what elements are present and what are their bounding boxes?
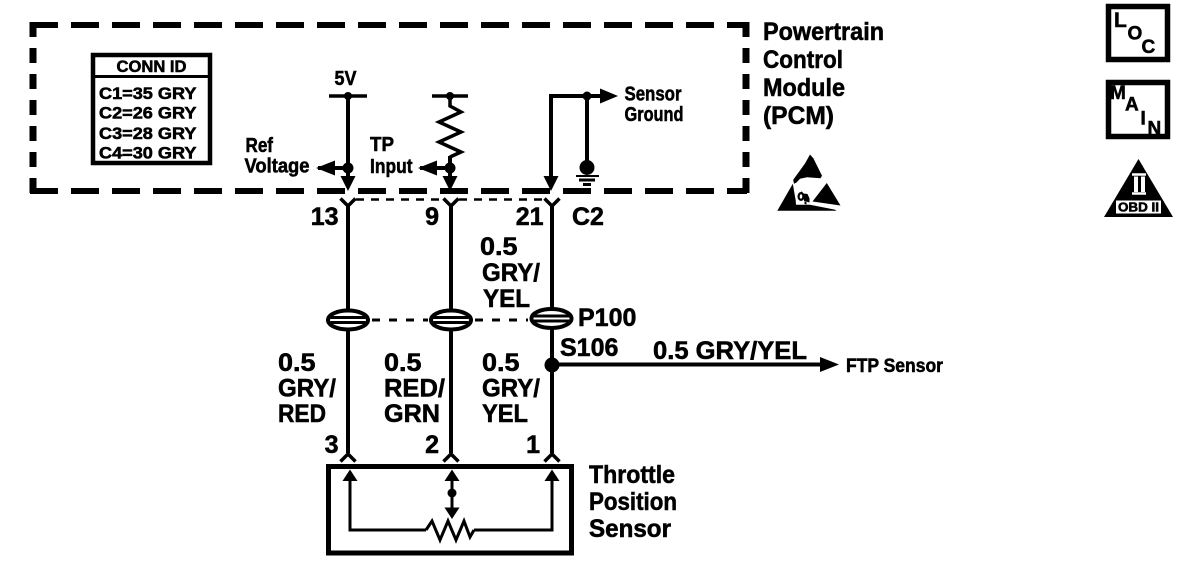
- arrowhead left leg (up): [343, 470, 358, 482]
- wire to TP Input arrow: [420, 166, 450, 170]
- svg-text:Powertrain: Powertrain: [763, 18, 884, 46]
- wire to Ref Voltage arrow: [318, 166, 348, 170]
- pin 1 connector fork: [545, 454, 560, 462]
- svg-text:RED/: RED/: [384, 375, 445, 403]
- node dot on 5V bar: [344, 92, 352, 100]
- svg-text:0.5: 0.5: [482, 349, 520, 377]
- svg-text:A: A: [1125, 95, 1139, 116]
- wire W2: TP input rail bar: [432, 94, 468, 98]
- svg-text:YEL: YEL: [483, 285, 530, 313]
- wire W1 P100 to pin 3: [346, 329, 350, 453]
- arrowhead Sensor Ground (right): [600, 89, 618, 104]
- svg-text:Sensor: Sensor: [625, 84, 682, 106]
- wire ground drop: [585, 96, 589, 161]
- svg-text:GRN: GRN: [384, 400, 440, 428]
- svg-text:Position: Position: [589, 488, 677, 516]
- TPS potentiometer left leg: [350, 478, 426, 530]
- label 0.5 GRY/YEL (upper, into pin 21): [480, 233, 540, 313]
- svg-text:C4=30 GRY: C4=30 GRY: [99, 145, 197, 163]
- svg-text:3: 3: [325, 431, 339, 459]
- svg-text:(PCM): (PCM): [763, 102, 834, 130]
- arrowhead Ref Voltage (left): [316, 161, 335, 176]
- label Throttle Position Sensor: [589, 461, 677, 543]
- svg-text:Module: Module: [763, 74, 845, 102]
- svg-text:Sensor: Sensor: [589, 515, 671, 543]
- splice S106: [545, 358, 560, 373]
- svg-text:21: 21: [516, 203, 544, 231]
- ground symbol: [576, 160, 599, 185]
- svg-text:13: 13: [311, 203, 339, 231]
- OBD II icon: [1104, 159, 1173, 217]
- wire W3 P100 to pin 1: [550, 327, 554, 453]
- node dot ground tap: [583, 92, 592, 101]
- ESD symbol: [777, 155, 840, 211]
- wire W1 PCM to P100: [346, 206, 350, 311]
- svg-text:GRY/: GRY/: [482, 259, 540, 287]
- arrowhead W3 down into PCM pin 21: [544, 176, 559, 191]
- svg-text:Ref: Ref: [246, 135, 274, 157]
- TPS resistor element: [426, 521, 474, 540]
- svg-text:9: 9: [425, 203, 439, 231]
- svg-text:RED: RED: [278, 400, 326, 428]
- P100 dashed tie line: [372, 319, 428, 322]
- arrowhead W2 down into PCM pin 9: [443, 176, 458, 191]
- connector C2 dashed tie line: [356, 198, 440, 201]
- svg-text:2: 2: [425, 431, 439, 459]
- svg-text:GRY/: GRY/: [482, 375, 540, 403]
- arrowhead right leg (up): [545, 470, 560, 482]
- pin 3 connector fork: [341, 454, 356, 462]
- wire W2 PCM to P100: [449, 206, 453, 311]
- label 0.5 RED/GRN: [384, 349, 445, 428]
- svg-text:0.5: 0.5: [384, 349, 422, 377]
- node dot on W2 bar: [446, 92, 454, 100]
- svg-text:0.5: 0.5: [480, 233, 518, 261]
- PCM label: [763, 18, 884, 130]
- inline connector P100 (middle): [431, 311, 471, 330]
- svg-text:OBD II: OBD II: [1118, 201, 1159, 215]
- svg-text:Throttle: Throttle: [589, 461, 675, 489]
- wire W2 below resistor: [448, 156, 452, 186]
- wire W3 PCM to P100: [550, 206, 554, 310]
- svg-text:FTP Sensor: FTP Sensor: [846, 356, 944, 377]
- svg-text:M: M: [1110, 83, 1126, 104]
- wire W1: 5V supply rail bar: [329, 94, 367, 98]
- svg-text:GRY/: GRY/: [278, 375, 336, 403]
- node junction TP Input: [445, 163, 456, 174]
- svg-text:C3=28 GRY: C3=28 GRY: [99, 125, 197, 143]
- svg-text:S106: S106: [560, 334, 618, 362]
- pin 2 connector fork: [444, 454, 459, 462]
- pin 21 connector Y: [545, 199, 560, 207]
- svg-text:0.5: 0.5: [278, 349, 316, 377]
- TPS potentiometer right leg: [474, 478, 552, 530]
- pin 9 connector Y: [444, 199, 459, 207]
- svg-text:O: O: [1128, 24, 1143, 45]
- svg-text:L: L: [1114, 9, 1127, 32]
- svg-text:N: N: [1148, 119, 1162, 140]
- TPS wiper leg: [451, 478, 454, 510]
- node dot wiper: [448, 489, 457, 498]
- wire S106 to FTP sensor: [552, 363, 822, 367]
- arrowhead wiper (up): [445, 470, 460, 482]
- label 0.5 GRY/RED: [278, 349, 336, 428]
- inline connector P100 (left): [328, 311, 368, 330]
- svg-text:I: I: [1141, 109, 1146, 130]
- svg-text:Voltage: Voltage: [245, 156, 310, 178]
- inline connector P100 (right): [532, 309, 572, 328]
- svg-text:C: C: [1142, 37, 1156, 58]
- svg-text:C2: C2: [572, 203, 604, 231]
- PCM dashed box: [30, 22, 747, 193]
- pin 13 connector Y: [341, 199, 356, 207]
- wire W3: sensor ground run: [551, 96, 604, 186]
- svg-text:5V: 5V: [335, 68, 358, 90]
- svg-text:C2=26 GRY: C2=26 GRY: [99, 105, 197, 123]
- svg-text:Ground: Ground: [625, 104, 684, 126]
- svg-text:1: 1: [526, 431, 540, 459]
- label 0.5 GRY/YEL (lower): [482, 349, 540, 428]
- wire W1 vertical (5V to pin 13): [346, 96, 350, 186]
- svg-text:Control: Control: [763, 46, 843, 74]
- node junction Ref Voltage: [343, 163, 354, 174]
- svg-text:YEL: YEL: [482, 400, 528, 428]
- arrowhead wiper (down at resistor): [445, 508, 460, 520]
- LOC icon: [1109, 7, 1168, 60]
- svg-text:Input: Input: [370, 156, 413, 178]
- CONN ID table: [91, 55, 212, 163]
- arrowhead FTP (right): [820, 357, 839, 372]
- arrowhead W1 down into PCM pin 13: [341, 176, 356, 191]
- MAIN icon: [1109, 83, 1168, 140]
- svg-text:TP: TP: [370, 134, 394, 156]
- Throttle Position Sensor box: [329, 467, 572, 554]
- svg-text:P100: P100: [578, 304, 636, 332]
- resistor (pull-up in PCM): [439, 96, 461, 157]
- arrowhead TP Input (left): [418, 161, 437, 176]
- svg-text:C1=35 GRY: C1=35 GRY: [99, 85, 197, 103]
- svg-text:0.5 GRY/YEL: 0.5 GRY/YEL: [653, 337, 807, 365]
- wire W2 P100 to pin 2: [449, 329, 453, 453]
- svg-text:CONN ID: CONN ID: [117, 58, 187, 76]
